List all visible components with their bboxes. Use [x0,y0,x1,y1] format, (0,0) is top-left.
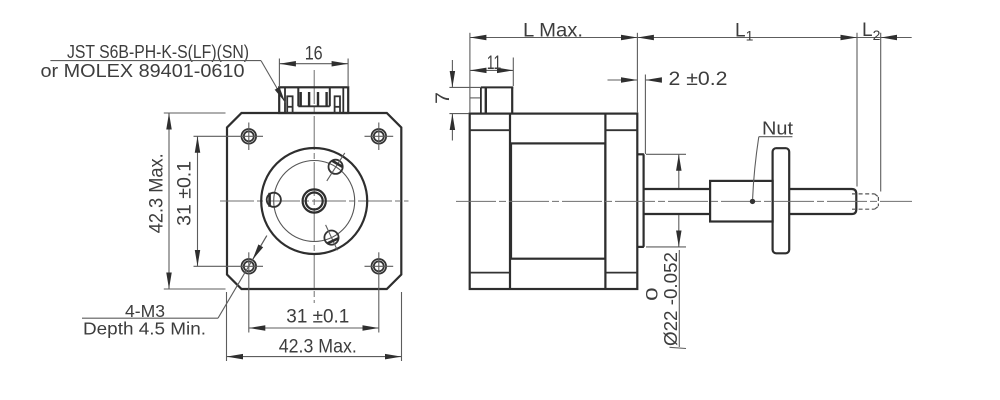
svg-text:16: 16 [305,43,323,64]
svg-text:JST S6B-PH-K-S(LF)(SN): JST S6B-PH-K-S(LF)(SN) [67,41,249,62]
motor body outline [470,114,638,289]
svg-text:7: 7 [433,92,454,104]
screw top-right [327,153,345,181]
nut body [710,181,773,222]
shaft hub outer circle [303,189,326,212]
svg-text:31 ±0.1: 31 ±0.1 [286,307,349,328]
step line top right [605,129,637,131]
vertical center line [313,70,315,303]
svg-text:11: 11 [487,53,502,74]
screw left [267,193,281,207]
connector side view [470,87,513,113]
mounting hole bottom-left [194,252,264,332]
nut flange [773,148,790,253]
mounting hole top-left [194,123,264,151]
svg-text:42.3 Max.: 42.3 Max. [279,337,357,358]
dimension L2 [857,20,912,43]
dimension 31 +-0.1 bottom [249,307,379,329]
svg-text:L Max.: L Max. [523,20,583,41]
side view center line [456,200,912,202]
svg-text:42.3 Max.: 42.3 Max. [147,153,168,233]
svg-text:Nut: Nut [762,117,793,138]
right end cap line [604,114,606,289]
shaft between boss and nut [644,189,711,214]
top dimension row extension lines [469,33,471,113]
dimension 11 [470,53,513,86]
connector front view body [279,87,348,113]
bolt circle [274,161,355,242]
screw bottom-right [324,225,338,250]
dimension L1 [637,21,857,44]
motor flange square with chamfered corners [227,113,401,289]
dashed machined end [852,194,878,209]
dimension 42.3 Max. bottom [227,292,402,361]
lamination stack rectangle [511,143,605,258]
label 4-M3 depth [82,236,267,339]
step line bottom left [470,272,510,274]
mounting hole top-right [365,123,394,151]
svg-text:2 ±0.2: 2 ±0.2 [669,69,728,90]
dimension 31 +-0.1 left [174,136,197,266]
svg-text:31 ±0.1: 31 ±0.1 [174,161,195,226]
dimension 42.3 Max. left [147,113,226,289]
svg-text:or MOLEX 89401-0610: or MOLEX 89401-0610 [41,60,245,81]
pilot boss side view [637,154,644,247]
label JST connector [41,41,286,103]
svg-text:0: 0 [644,287,662,301]
lead screw with rounded tip [789,189,856,214]
dimension L Max. [470,20,638,41]
label Nut with leader dot [750,117,793,204]
svg-text:Depth 4.5 Min.: Depth 4.5 Min. [83,318,206,338]
dimension diameter 22 [644,154,687,348]
mounting hole bottom-right [365,252,394,332]
dimension 7 [433,60,481,141]
horizontal center line [220,200,409,202]
left end cap line [509,114,511,289]
dimension 2 +-0.2 [608,69,728,154]
svg-text:Ø22 -0.052: Ø22 -0.052 [660,252,681,346]
dimension 16 [279,43,348,86]
step line bottom right [605,272,637,274]
shaft hole inner circle [306,193,323,210]
pilot boss circle [261,148,367,254]
step line top left [470,129,510,131]
